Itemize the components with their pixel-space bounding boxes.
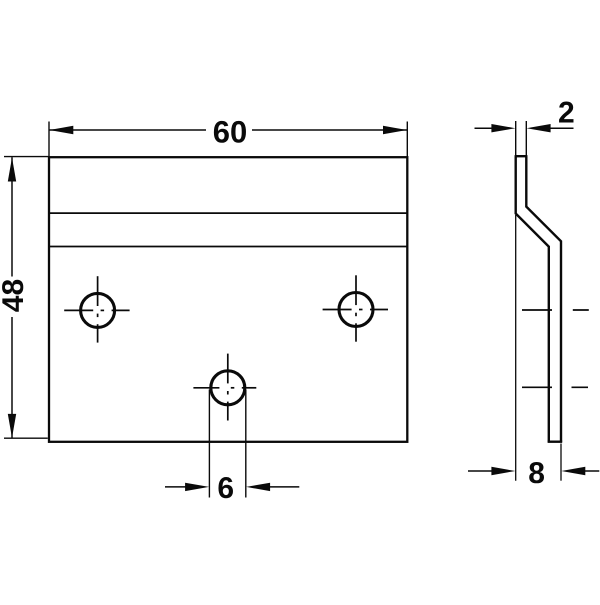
svg-text:60: 60 [213,115,247,150]
svg-text:2: 2 [558,96,575,129]
dim 60 line right segment [252,129,407,131]
dim 60 extension line left [48,122,50,158]
dim 6 arrow right tail [267,486,299,488]
dim 6 extension line left [208,390,210,498]
hole bottom centerlines [193,354,256,421]
dim 8 arrow right [561,467,585,475]
dim 8 arrow left tail [468,470,494,472]
dim 60 line left segment [49,129,206,131]
side view centerline lower long dash [522,386,552,388]
front view plate outline [49,157,407,442]
side view centerline upper long dash [522,309,552,311]
dim 6 arrow right [246,483,270,491]
dim 60 arrow left [49,126,73,134]
side view left edge [516,156,549,442]
dim 2 arrow right tail [548,127,574,129]
hole right [339,293,373,327]
svg-text:48: 48 [0,279,30,312]
side view right edge [526,156,561,442]
hole right centerlines [323,275,388,341]
dim 8 arrow right tail [583,470,599,472]
bend line upper [49,212,407,214]
side view bottom cap [548,441,563,443]
dim 2 extension right [525,121,527,156]
dim 8 extension right [560,444,562,481]
dim 48 line upper segment [11,157,13,276]
hole left [81,293,115,327]
dim 6 arrow left tail [165,486,188,488]
hole bottom [211,371,245,405]
dim 8 arrow left [491,467,515,475]
dim 6 arrow left [185,483,209,491]
svg-text:8: 8 [528,457,545,490]
dim 60 arrow right [383,126,407,134]
dim 48 line lower segment [11,317,13,438]
dim 8 extension left [515,215,517,481]
dim 2 arrow right [527,124,551,132]
dim 60 extension line right [406,122,408,158]
dim 48 extension line top [4,156,49,158]
side view centerline lower short dash [572,386,589,388]
dim 48 arrow bottom [8,414,16,438]
dim 48 extension line bottom [4,437,48,439]
svg-text:6: 6 [217,472,234,505]
side view centerline upper short dash [573,309,589,311]
side view top cap [515,155,528,157]
dim 48 arrow top [8,158,16,182]
dim 6 extension line right [245,390,247,498]
dim 2 extension left [515,121,517,156]
dim 2 arrow left [491,124,515,132]
bend line lower [49,246,407,248]
hole left centerlines [64,276,129,342]
dim 2 arrow left tail [475,127,495,129]
